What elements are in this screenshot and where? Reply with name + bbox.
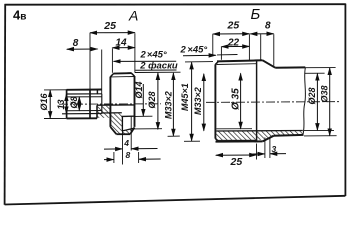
A tube bottom edge xyxy=(67,117,97,119)
A dim 25 xyxy=(90,33,135,90)
A dim 4 bottom xyxy=(104,116,158,164)
A dim 8 bottom xyxy=(104,152,161,163)
A bore 8 bottom line xyxy=(67,110,102,112)
svg-text:4: 4 xyxy=(123,138,129,148)
B chamfer bottom-left xyxy=(215,138,218,141)
A bore 8 top line xyxy=(67,96,102,98)
svg-text:8: 8 xyxy=(73,38,79,49)
B hatch left block xyxy=(216,131,256,140)
A dim 14 xyxy=(112,48,134,73)
svg-text:Ø8: Ø8 xyxy=(69,96,79,108)
axis A xyxy=(59,103,161,105)
B taper bottom xyxy=(263,136,274,142)
A dim 13 xyxy=(65,94,67,114)
A bore14 bottom line xyxy=(102,112,122,114)
svg-text:М33×2: М33×2 xyxy=(193,87,203,115)
A underline фаски xyxy=(135,69,176,71)
A hatch bottom strip under pocket xyxy=(122,128,134,134)
B chamfer top-left xyxy=(215,61,218,64)
frame right xyxy=(344,4,346,196)
A hatch mid block xyxy=(98,106,110,118)
A flange face vertical xyxy=(89,90,91,119)
B internal thread thin bottom xyxy=(216,128,252,130)
B tube bottom xyxy=(274,134,304,137)
axis B xyxy=(206,101,340,104)
svg-text:8: 8 xyxy=(265,21,271,32)
B break line wavy xyxy=(303,68,306,135)
B dim M33x2 xyxy=(203,74,205,131)
B dim 22 xyxy=(221,46,249,59)
A dim M33x2 xyxy=(168,73,180,136)
B thread boundary vertical xyxy=(256,60,258,141)
A pocket top line xyxy=(121,115,134,117)
svg-text:М45×1: М45×1 xyxy=(180,83,190,111)
svg-text:8: 8 xyxy=(126,150,131,160)
A bore14 top line xyxy=(97,104,134,106)
A bottom edge xyxy=(116,133,130,135)
B taper top xyxy=(263,60,276,67)
B dim 25 bottom xyxy=(216,144,257,160)
svg-text:3: 3 xyxy=(272,144,277,154)
A thread cyl right edge xyxy=(134,76,136,127)
A thread top crest xyxy=(113,72,131,75)
frame top xyxy=(5,3,346,6)
B tube top xyxy=(275,66,305,68)
A bottom chamfer right xyxy=(130,127,134,134)
B dim 8 top xyxy=(250,34,274,66)
frame left xyxy=(4,4,7,205)
A tube left face xyxy=(66,89,68,118)
A neck step vertical xyxy=(96,90,98,95)
A crest ext right xyxy=(135,71,181,73)
A pocket bottom line xyxy=(122,128,133,131)
B thread top crest xyxy=(217,60,263,61)
svg-text:25: 25 xyxy=(103,20,116,32)
B dim M45x1 xyxy=(184,62,213,142)
B left face xyxy=(214,64,216,138)
A dim D8 xyxy=(78,97,80,111)
svg-text:А: А xyxy=(128,8,138,24)
svg-text:2×45°: 2×45° xyxy=(180,44,208,55)
svg-text:Ø 35: Ø 35 xyxy=(231,88,242,110)
A leader 2x45 xyxy=(114,60,177,62)
svg-text:Ø16: Ø16 xyxy=(39,92,49,110)
svg-text:Ø28: Ø28 xyxy=(147,91,157,108)
svg-text:Ø28: Ø28 xyxy=(307,87,317,104)
B hatch bottom boundary thin xyxy=(216,139,256,141)
B bore bottom line xyxy=(216,130,302,133)
A dim D16 xyxy=(44,90,67,119)
A hole bottom face vertical xyxy=(101,94,103,114)
B hatch taper wedge xyxy=(257,131,274,141)
A dim D14 right xyxy=(134,84,152,116)
A mid step left vertical xyxy=(96,105,98,118)
B leader 2x45 xyxy=(183,54,216,57)
svg-text:13: 13 xyxy=(56,99,66,109)
A hatch thread block left xyxy=(110,113,121,135)
A thread chamfer top-right xyxy=(131,73,134,76)
A dim D28 xyxy=(134,73,163,130)
B thread top root thin xyxy=(217,63,257,66)
svg-text:2×45°: 2×45° xyxy=(140,50,167,61)
A bore 13 bottom line xyxy=(62,113,102,115)
frame bottom xyxy=(5,196,346,205)
A tube top edge xyxy=(67,89,102,91)
svg-text:22: 22 xyxy=(227,37,240,48)
B dim D28 right xyxy=(304,73,334,130)
A bottom chamfer left xyxy=(110,127,116,134)
svg-text:М33×2: М33×2 xyxy=(164,91,174,119)
A thread cyl left edge xyxy=(109,77,111,127)
svg-text:14: 14 xyxy=(116,37,128,48)
B bottom crest xyxy=(216,140,263,142)
svg-text:Ø14: Ø14 xyxy=(134,81,144,98)
B dim 3 bottom xyxy=(253,137,287,158)
svg-text:25: 25 xyxy=(230,156,243,168)
B dim D38 right xyxy=(304,68,337,136)
svg-text:Ø38: Ø38 xyxy=(319,85,329,102)
A thread chamfer top-left xyxy=(110,74,113,77)
A bore 13 top line xyxy=(67,93,102,95)
svg-text:25: 25 xyxy=(227,20,240,32)
B dim D35 xyxy=(240,73,242,129)
svg-text:Б: Б xyxy=(251,6,261,23)
B hatch tube wall xyxy=(274,131,304,136)
A dim 8 top xyxy=(67,49,102,94)
A thread root thin line xyxy=(111,76,134,78)
B dim 25 top xyxy=(213,34,250,60)
A pocket left wall xyxy=(121,116,123,131)
